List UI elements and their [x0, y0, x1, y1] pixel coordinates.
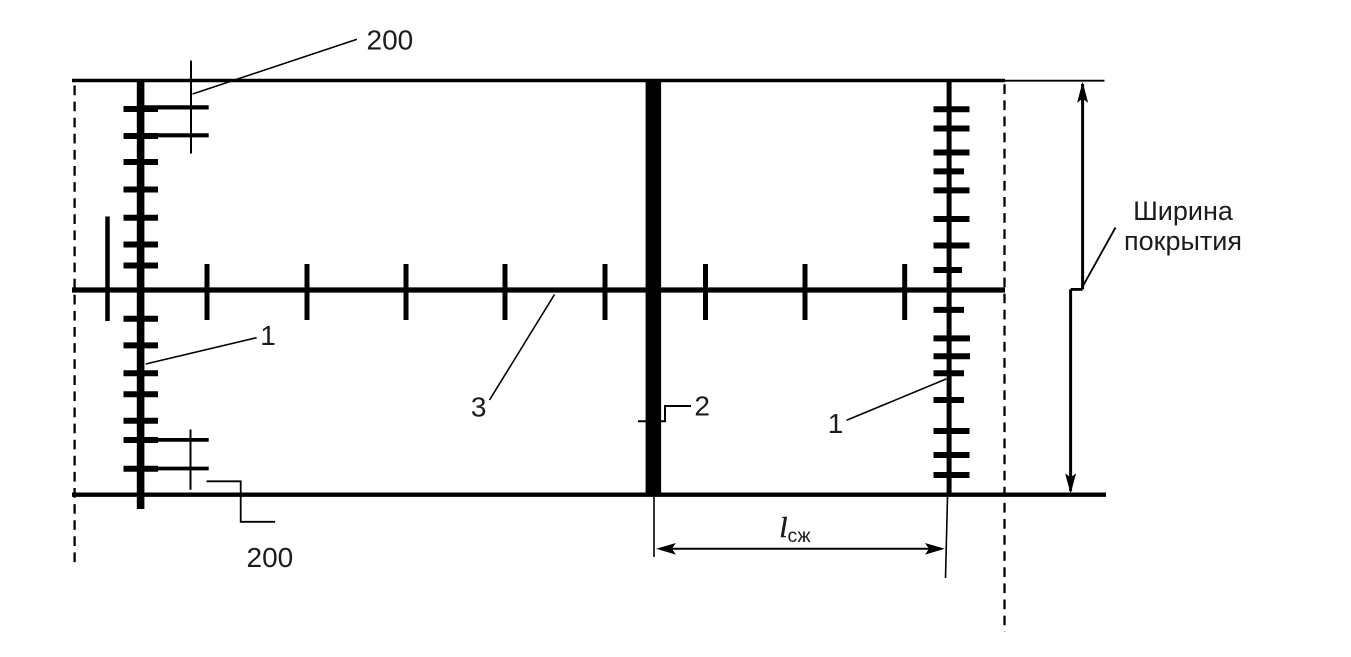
l_sg left arrowhead — [656, 543, 676, 555]
top edge thin extension line — [1005, 80, 1105, 82]
stepped leader line for bottom 200 label — [207, 481, 276, 522]
tick extension lines top-left (200 mm spacing marks) — [144, 107, 209, 135]
svg-text:покрытия: покрытия — [1124, 226, 1242, 256]
extension line below right bar 1 — [946, 497, 948, 578]
ticks on left bar 1 — [124, 109, 159, 469]
ticks on right bar 1 — [934, 109, 971, 475]
leader line for right label 1 — [847, 379, 947, 420]
svg-text:200: 200 — [247, 542, 294, 573]
leader line for left label 1 — [146, 338, 257, 364]
leader line for label 3 — [490, 295, 555, 401]
thin vertical marker line bottom-left — [190, 430, 192, 490]
svg-text:сж: сж — [788, 525, 811, 547]
svg-text:Ширина: Ширина — [1133, 196, 1234, 226]
extension line below bar 2 — [653, 497, 655, 557]
svg-text:l: l — [780, 513, 788, 544]
bottom pavement edge line — [72, 493, 1106, 497]
svg-text:1: 1 — [260, 320, 276, 351]
right longitudinal bar 1 — [947, 80, 952, 496]
ticks on line 3 — [207, 264, 905, 320]
svg-text:2: 2 — [694, 390, 710, 421]
width dimension jog — [1071, 288, 1083, 291]
leader line for top 200 label — [193, 39, 357, 94]
transverse joint bar 2 — [646, 80, 662, 497]
top pavement edge line — [72, 79, 1005, 82]
tall tick on line 3 at x=107 — [105, 217, 110, 322]
svg-text:3: 3 — [471, 391, 487, 422]
width dimension bottom arrowhead — [1065, 473, 1076, 493]
width dimension top arrowhead — [1077, 82, 1088, 103]
svg-text:200: 200 — [367, 24, 414, 55]
width dimension upper shaft — [1081, 84, 1084, 289]
stepped leader line for label 2 — [638, 406, 691, 421]
svg-text:1: 1 — [828, 408, 844, 439]
longitudinal joint line 3 — [72, 287, 1005, 292]
leader line for width label — [1084, 228, 1116, 286]
thin vertical marker line top-left — [190, 61, 192, 154]
l_sg right arrowhead — [925, 543, 945, 555]
tick extension lines bottom-left (200 mm spacing marks) — [144, 440, 209, 469]
left dashed edge line — [73, 86, 75, 564]
right dashed edge line — [1003, 84, 1005, 632]
width dimension lower shaft — [1069, 289, 1072, 491]
left longitudinal bar 1 — [137, 79, 145, 509]
l_sg dimension line — [660, 548, 941, 550]
